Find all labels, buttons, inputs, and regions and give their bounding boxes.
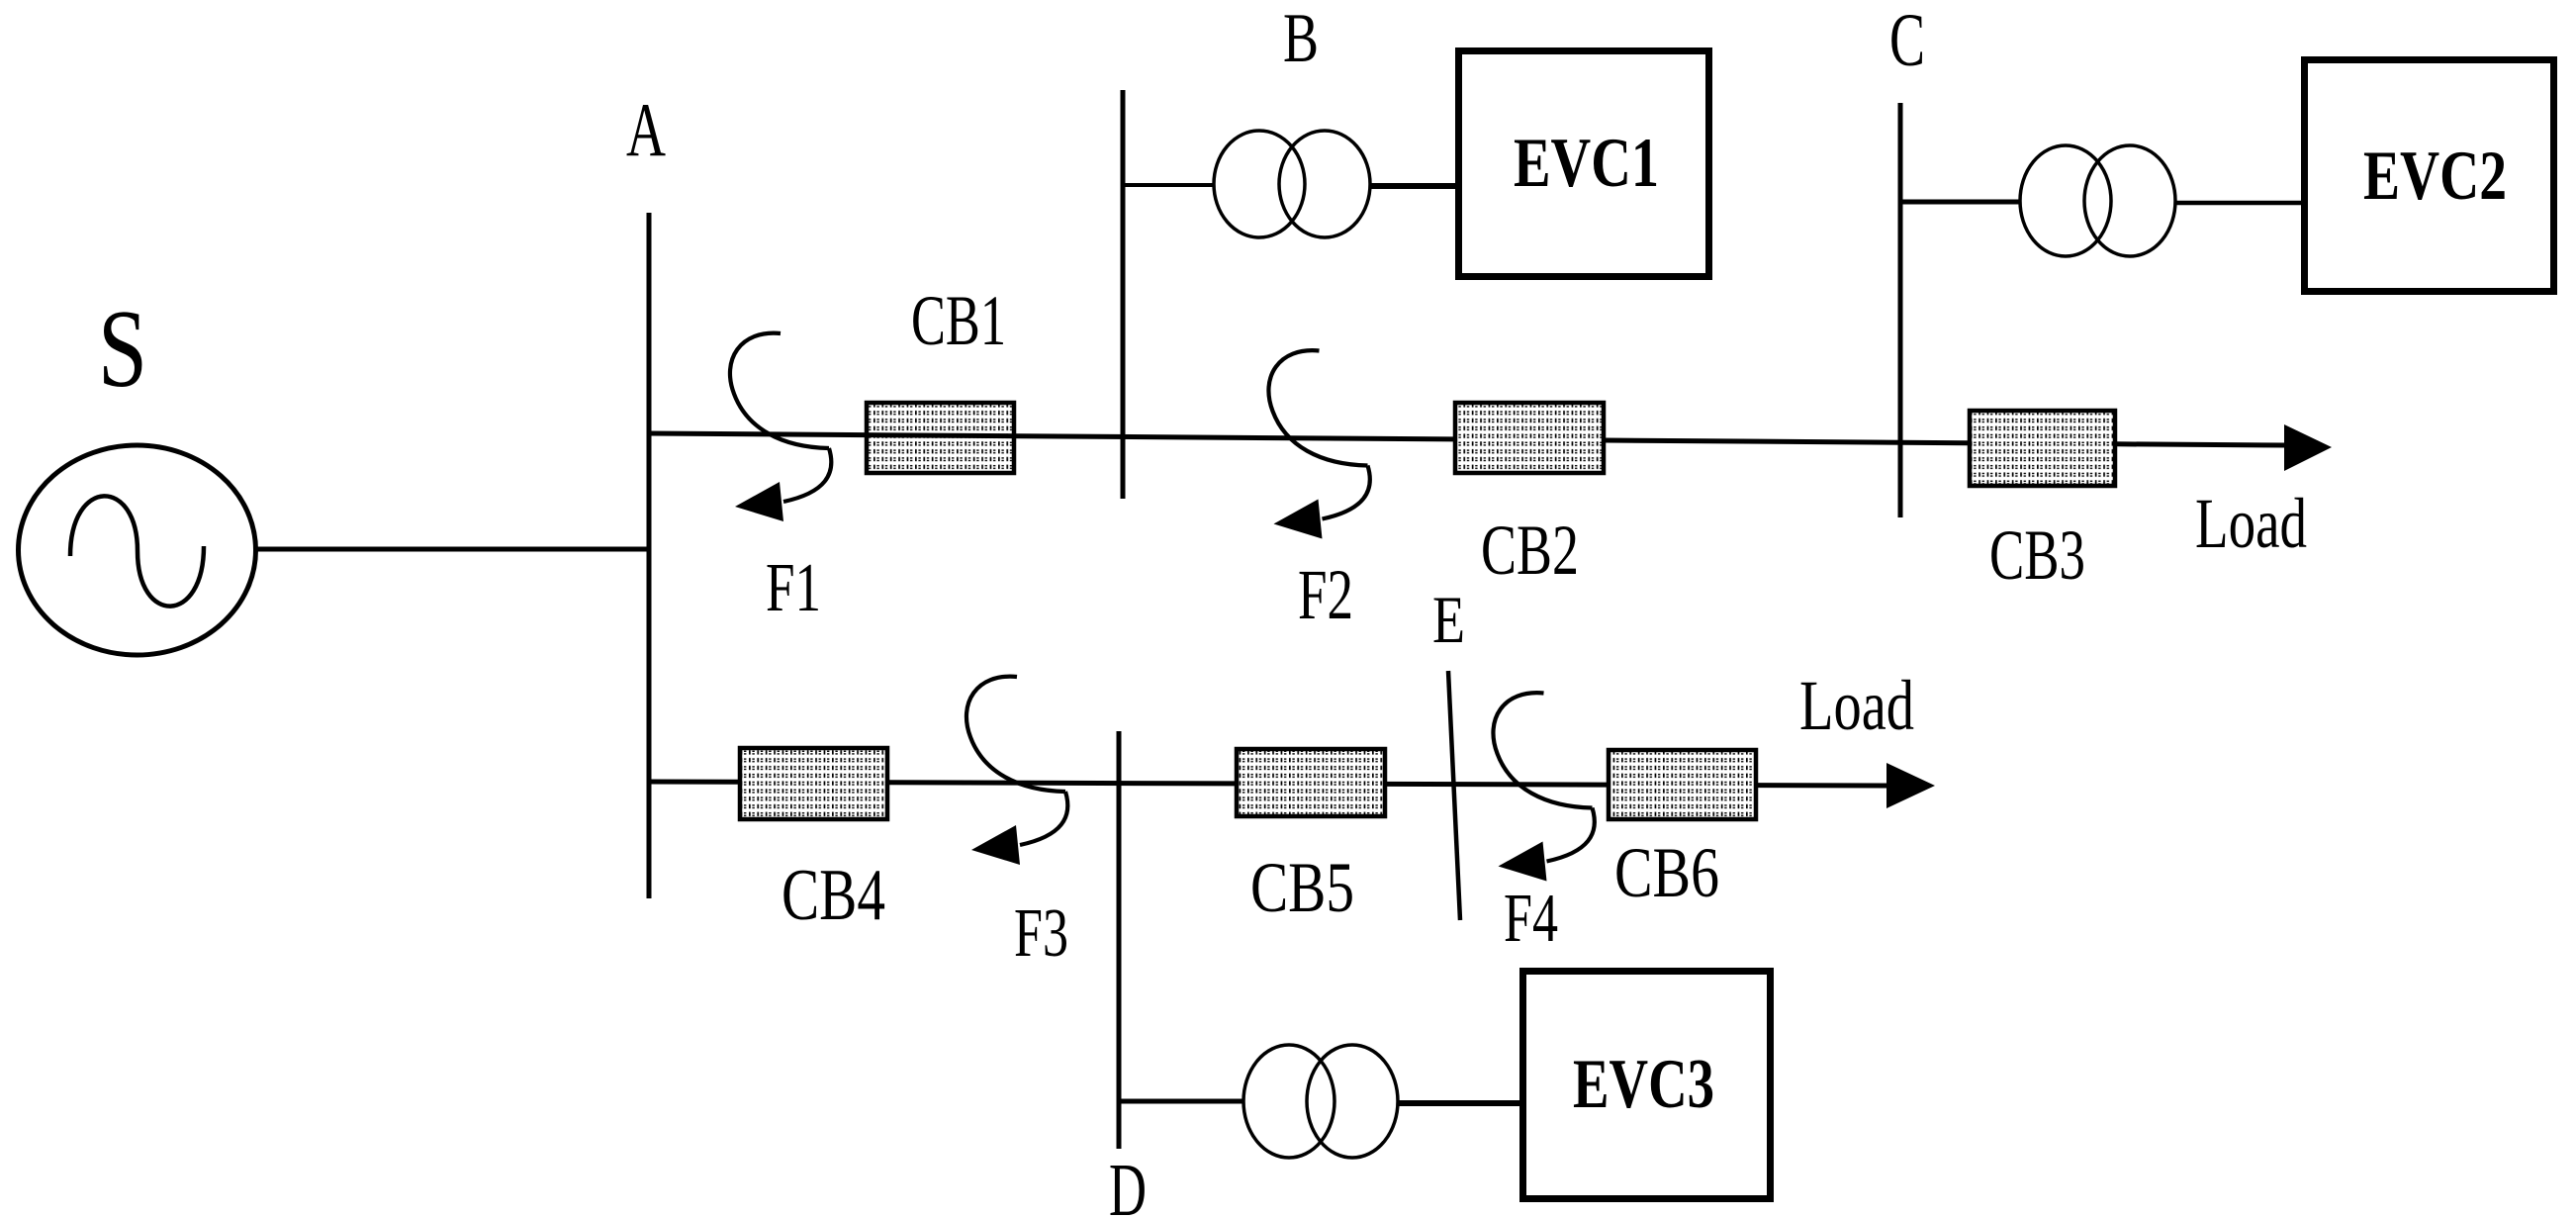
svg-text:CB5: CB5 xyxy=(1250,848,1354,927)
svg-text:F3: F3 xyxy=(1014,895,1068,972)
svg-text:C: C xyxy=(1889,0,1925,82)
circuit breaker CB5 xyxy=(1237,749,1385,816)
svg-text:D: D xyxy=(1109,1149,1147,1218)
EVC3 box xyxy=(1523,972,1771,1199)
svg-text:EVC1: EVC1 xyxy=(1514,125,1659,202)
wire T2 to EVC2 xyxy=(2174,201,2304,206)
fault F3 arrow xyxy=(966,677,1067,865)
wire bottom feeder A to CB4 xyxy=(649,780,738,785)
wire bus D to transformer T3 xyxy=(1119,1099,1244,1104)
wire bottom feeder CB4 to CB5 xyxy=(889,783,1235,784)
wire top feeder segment CB3 to load arrow xyxy=(2117,444,2287,445)
node E slanted line xyxy=(1448,671,1460,920)
svg-text:F4: F4 xyxy=(1504,881,1558,957)
load arrowhead top xyxy=(2284,424,2332,471)
circuit breaker CB1 xyxy=(867,403,1014,473)
svg-text:CB2: CB2 xyxy=(1481,511,1579,590)
circuit breaker CB6 xyxy=(1609,750,1756,819)
wire source to bus A xyxy=(256,547,651,552)
source sine wave xyxy=(70,496,204,606)
svg-text:Load: Load xyxy=(1799,666,1914,745)
wire T1 to EVC1 xyxy=(1370,183,1458,189)
wire top feeder segment CB2 to CB3 xyxy=(1606,440,1968,443)
load arrowhead bottom xyxy=(1886,763,1935,808)
bus B xyxy=(1121,90,1126,499)
wire T3 to EVC3 xyxy=(1397,1100,1523,1106)
svg-text:S: S xyxy=(98,288,147,411)
bus A xyxy=(647,213,652,898)
wire bottom feeder CB6 to load arrow xyxy=(1758,783,1889,788)
wire bus B to transformer T1 xyxy=(1123,183,1215,187)
svg-text:EVC2: EVC2 xyxy=(2363,138,2507,215)
wire bottom feeder CB5 to CB6 xyxy=(1387,782,1607,788)
svg-text:E: E xyxy=(1432,582,1465,657)
svg-text:F1: F1 xyxy=(766,550,821,626)
bus C xyxy=(1898,103,1903,517)
fault F4 arrow xyxy=(1493,693,1594,881)
wire bus C to transformer T2 xyxy=(1900,200,2021,205)
EVC2 box xyxy=(2305,60,2554,292)
circuit breaker CB3 xyxy=(1970,411,2115,486)
svg-text:CB4: CB4 xyxy=(782,855,885,936)
circuit breaker CB2 xyxy=(1455,403,1604,473)
svg-text:EVC3: EVC3 xyxy=(1573,1046,1714,1123)
svg-text:A: A xyxy=(626,87,666,172)
svg-text:B: B xyxy=(1283,0,1319,77)
fault F2 arrow xyxy=(1268,350,1369,538)
source S circle xyxy=(19,445,256,655)
svg-text:CB6: CB6 xyxy=(1614,833,1719,912)
fault F1 arrow xyxy=(730,333,831,521)
wire through CB1 xyxy=(865,435,1016,436)
svg-text:F2: F2 xyxy=(1298,555,1353,634)
svg-text:CB3: CB3 xyxy=(1989,515,2085,595)
svg-text:CB1: CB1 xyxy=(911,281,1006,360)
circuit breaker CB4 xyxy=(740,748,887,819)
EVC1 box xyxy=(1459,51,1709,277)
svg-text:Load: Load xyxy=(2195,484,2307,563)
wire top feeder segment A to CB2 (passes through CB1) xyxy=(649,433,1453,439)
transformer T1 xyxy=(1214,131,1305,237)
bus D xyxy=(1117,731,1122,1149)
transformer T2 xyxy=(2020,145,2111,256)
transformer T3 xyxy=(1243,1045,1334,1158)
